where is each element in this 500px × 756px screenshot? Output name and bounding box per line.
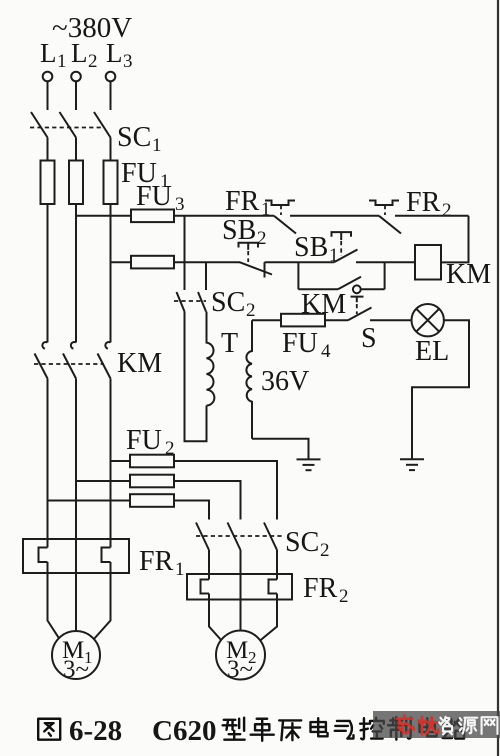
wire control feed top from L2 <box>76 215 131 217</box>
wire latch branch bottom left <box>298 288 338 290</box>
thermal relay FR1 actuator symbol <box>265 201 295 206</box>
switch SC1 pole 2 blade <box>60 112 77 138</box>
contactor KM main pole 3 blade <box>98 354 111 379</box>
pushbutton SB1 NO blade <box>334 250 358 263</box>
svg-text:FU: FU <box>126 425 162 456</box>
label FU1 <box>121 158 170 192</box>
wire FR2 box to motor M2 left <box>209 600 222 642</box>
thermal relay FR2 heater element pole1 <box>201 574 210 600</box>
svg-text:FU: FU <box>282 328 318 359</box>
watermark char 忘 <box>397 715 414 733</box>
wire FU4 to switch S <box>325 319 348 321</box>
svg-text:2: 2 <box>442 200 452 221</box>
thermal relay FR2 heater pole2 wire <box>240 574 242 600</box>
label SC2 transformer <box>211 287 256 321</box>
wire right rail down to coil <box>441 216 469 263</box>
fuse FU2 pole b <box>130 475 174 488</box>
fuse FU3 upper <box>131 210 174 223</box>
thermal relay FR1 heater pole2 wire <box>75 539 77 573</box>
wire secondary bottom to ground <box>252 439 309 459</box>
contactor KM main pole 2 arc <box>71 342 76 349</box>
thermal relay FR1 actuator dashed stem <box>280 205 282 215</box>
label FU4 <box>282 328 331 362</box>
switch SC2 motor2 pole 2 blade <box>228 523 241 551</box>
terminal L3 <box>106 72 116 82</box>
svg-text:SC: SC <box>285 527 319 558</box>
svg-text:L: L <box>40 38 57 68</box>
switch SC2 transformer pole A wire from top line <box>184 216 186 290</box>
caption char 控 <box>360 718 384 740</box>
thermal relay FR2 actuator symbol <box>369 201 399 206</box>
svg-text:C620: C620 <box>152 715 216 747</box>
thermal relay FR1 heater element pole3 <box>102 539 111 573</box>
svg-text:KM: KM <box>446 259 491 290</box>
svg-text:3~: 3~ <box>63 656 89 683</box>
caption char 电 <box>311 718 328 736</box>
label KM coil <box>446 259 491 290</box>
wire L2 KM to FR1 box <box>75 379 77 540</box>
wire S to lamp EL <box>370 319 412 321</box>
thermal relay FR2 heater box <box>187 574 292 600</box>
pushbutton SB1 dashed stem <box>340 232 342 256</box>
svg-text:1: 1 <box>329 245 339 266</box>
caption char 路 <box>443 719 466 739</box>
label FU3 <box>136 181 185 215</box>
svg-text:FR: FR <box>406 187 441 218</box>
watermark panel <box>373 711 500 738</box>
svg-text:FR: FR <box>225 186 260 217</box>
wire L2 terminal to switch <box>75 82 77 111</box>
svg-text:KM: KM <box>117 348 162 379</box>
watermark char 源 <box>459 718 477 734</box>
watermark char 忧 <box>419 717 438 734</box>
coil KM <box>415 245 441 280</box>
wire L1 KM to FR1 box <box>47 379 49 540</box>
wire latch branch left drop <box>297 262 299 289</box>
label FR1 heater <box>139 546 185 580</box>
wire SB1 to rejoin node <box>356 261 385 263</box>
thermal relay FR1 heater box <box>23 539 129 573</box>
wire control bottom line FU3 to SB2 <box>174 261 240 263</box>
frame right border <box>497 0 499 756</box>
svg-text:SB: SB <box>294 232 328 263</box>
wire SC2 poles to FR2 box <box>209 550 277 574</box>
wire FR2 to right rail <box>395 215 469 217</box>
label KM main <box>117 348 162 379</box>
wire FU2 a to M2 pole 3 <box>174 461 277 520</box>
wire SB2 to branch node <box>265 261 299 263</box>
svg-text:T: T <box>221 328 238 359</box>
label 36V <box>261 366 309 397</box>
switch SC2 transformer pole A blade <box>177 292 185 312</box>
watermark char 网 <box>482 717 498 734</box>
wire FR1 to FR2 <box>290 215 379 217</box>
fuse FU3 lower <box>131 256 174 269</box>
fuse FU2 pole c <box>130 494 174 507</box>
svg-text:FR: FR <box>303 573 338 604</box>
label FR2 <box>406 187 452 221</box>
wire FU2 c to M2 pole 1 <box>174 501 209 520</box>
ground transformer secondary <box>297 459 321 470</box>
svg-text:36V: 36V <box>261 366 309 397</box>
label M1 <box>62 637 93 683</box>
svg-text:S: S <box>361 323 377 354</box>
switch SC1 pole 3 blade <box>94 112 111 138</box>
wire L1 fuse to KM contact <box>47 204 49 343</box>
svg-text:2: 2 <box>339 586 349 607</box>
label FU2 <box>126 425 175 459</box>
switch SC2 transformer pole B blade <box>198 292 206 312</box>
svg-text:L: L <box>71 38 88 68</box>
contact KM auxiliary latch blade <box>338 277 361 290</box>
wire L2 fuse down, node at control tap <box>75 204 77 343</box>
pushbutton SB2 NC blade <box>240 262 273 274</box>
label EL <box>415 336 449 367</box>
caption text 6-28 <box>69 715 122 747</box>
contactor KM main pole 1 arc <box>42 342 47 349</box>
wire L1 switch to fuse <box>47 138 49 162</box>
caption char 气 <box>335 721 354 739</box>
label FR1 <box>225 186 271 220</box>
svg-text:2: 2 <box>88 51 98 72</box>
label KM latch <box>301 289 346 320</box>
wire L1 terminal to switch <box>47 82 49 111</box>
wire latch branch bottom right <box>360 288 385 290</box>
pushbutton SB2 fixed contact tick <box>264 262 266 277</box>
pushbutton SB2 cap <box>239 243 259 248</box>
lamp EL <box>412 304 444 336</box>
label T <box>221 328 238 359</box>
label M2 <box>226 637 257 683</box>
svg-text:6-28: 6-28 <box>69 715 122 747</box>
svg-text:1: 1 <box>261 199 271 220</box>
transformer T secondary winding <box>246 320 252 439</box>
svg-text:2: 2 <box>320 540 330 561</box>
thermal relay FR2 NC contact blade <box>379 216 401 234</box>
caption char 电 2 <box>420 718 437 736</box>
wire secondary top to FU4 <box>252 319 281 321</box>
wire latch branch right rise <box>384 262 386 289</box>
fuse FU4 <box>281 314 325 327</box>
svg-text:3: 3 <box>123 51 133 72</box>
switch S blade <box>348 308 372 321</box>
label S <box>361 323 377 354</box>
caption text C620 <box>152 715 216 747</box>
thermal relay FR2 heater element pole3 <box>269 574 278 600</box>
svg-text:3~: 3~ <box>227 656 253 683</box>
label L3 <box>106 38 133 72</box>
thermal relay FR1 NC contact blade <box>274 216 296 234</box>
contactor KM main pole 3 arc <box>105 342 110 349</box>
svg-text:2: 2 <box>257 228 267 249</box>
pushbutton SB2 dashed stem <box>247 243 249 262</box>
svg-text:SC: SC <box>211 287 245 318</box>
switch SC2 motor2 linkage dashed <box>196 535 283 537</box>
wire FR1 box to motor M1 right <box>94 573 111 640</box>
label SC2 motor2 <box>285 527 330 561</box>
wire branch node to SB1 <box>298 261 334 263</box>
label SB2 <box>222 215 267 249</box>
contactor KM main pole 2 blade <box>63 354 76 379</box>
fuse FU2 pole a <box>130 455 174 468</box>
wire L2 switch to fuse <box>75 138 77 162</box>
wire pole A down to primary bottom <box>185 312 207 442</box>
ground lamp circuit <box>400 459 424 470</box>
switch S actuator bar and dashed stem <box>351 297 364 314</box>
svg-text:FU: FU <box>136 181 172 212</box>
switch SC2 transformer pole B wire from bottom line <box>205 262 207 290</box>
motor M2 <box>216 631 265 680</box>
wire FR1 box to motor M1 middle <box>75 573 77 632</box>
switch SC1 pole 1 blade <box>31 112 48 138</box>
label L2 <box>71 38 98 72</box>
contactor KM main pole 1 blade <box>35 354 48 379</box>
label FR2 heater <box>303 573 349 607</box>
switch SC2 transformer linkage dashed <box>174 300 206 302</box>
switch SC2 motor2 pole 1 blade <box>196 523 209 551</box>
wire FR1 box to motor M1 left <box>48 573 60 640</box>
caption char 床 <box>279 720 301 740</box>
svg-text:1: 1 <box>175 559 185 580</box>
contactor KM linkage dashed <box>34 363 104 365</box>
label L1 <box>40 38 67 72</box>
wire L3 terminal to switch <box>110 82 112 111</box>
caption figure number 图 <box>38 719 60 740</box>
wire rejoin node to coil <box>385 261 415 263</box>
fuse FU1 pole 1 <box>41 161 55 205</box>
wire FR2 box to motor M2 right <box>260 600 278 642</box>
wire FU2 tap from L2 <box>76 480 130 482</box>
wire lamp EL to ground <box>412 320 469 458</box>
wire FU2 tap from L1 <box>48 500 131 502</box>
pushbutton SB1 cap <box>332 232 352 237</box>
transformer T primary winding <box>207 312 215 406</box>
fuse FU1 pole 2 <box>69 161 83 205</box>
svg-text:SB: SB <box>222 215 256 246</box>
caption char 型 <box>223 718 245 740</box>
thermal relay FR2 actuator dashed stem <box>384 205 386 215</box>
svg-text:2: 2 <box>246 300 256 321</box>
wire control feed bottom from L3 <box>111 261 132 263</box>
terminal L2 <box>71 72 81 82</box>
wire FR2 box to motor M2 middle <box>240 600 242 632</box>
wire L3 switch to fuse <box>110 138 112 162</box>
watermark char 资 <box>439 717 452 735</box>
caption char 制 <box>388 717 411 740</box>
wire L3 KM to FR1 box <box>110 379 112 540</box>
svg-text:4: 4 <box>321 341 331 362</box>
thermal relay FR1 heater element pole1 <box>39 539 48 573</box>
caption char 车 <box>251 719 274 741</box>
svg-text:1: 1 <box>57 51 67 72</box>
svg-text:3: 3 <box>175 194 185 215</box>
svg-text:SC: SC <box>117 122 151 153</box>
switch SC1 linkage dashed <box>30 127 104 129</box>
svg-text:L: L <box>106 38 123 68</box>
svg-text:EL: EL <box>415 336 449 367</box>
terminal L1 <box>43 72 53 82</box>
wire control top line FU3 to FR1 contact <box>174 215 274 217</box>
wire L3 fuse down, node at control tap <box>110 204 112 343</box>
switch SC2 motor2 pole 3 blade <box>264 523 277 551</box>
wire FU2 b to M2 pole 2 <box>174 481 241 520</box>
svg-text:FR: FR <box>139 546 174 577</box>
svg-text:1: 1 <box>152 135 162 156</box>
motor M1 <box>52 631 100 679</box>
label ~380V supply <box>52 12 132 44</box>
fuse FU1 pole 3 <box>104 161 118 205</box>
switch S actuator circle <box>353 285 361 293</box>
label SC1 <box>117 122 162 156</box>
label SB1 <box>294 232 339 266</box>
wire FU2 tap from L3 <box>111 460 131 462</box>
